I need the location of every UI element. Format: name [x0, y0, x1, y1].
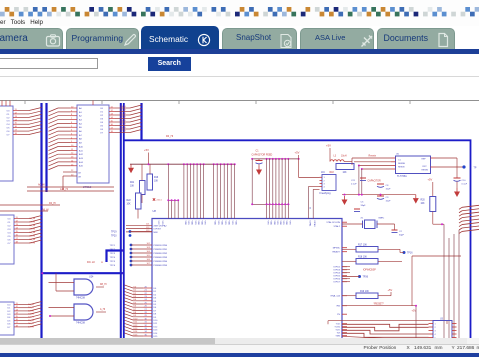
svg-text:R20: R20 [421, 200, 426, 202]
svg-text:10K: 10K [421, 203, 426, 205]
svg-text:D7_H: D7_H [121, 131, 127, 133]
svg-text:TPC5: TPC5 [110, 261, 116, 263]
svg-text:D3: D3 [154, 298, 158, 300]
svg-text:10K: 10K [130, 186, 135, 188]
svg-text:O0_HI: O0_HI [29, 218, 35, 220]
svg-text:A13: A13 [79, 157, 84, 160]
svg-text:O7_HI: O7_HI [29, 242, 35, 244]
svg-text:D5_HI: D5_HI [28, 320, 34, 322]
svg-text:A10: A10 [79, 145, 84, 148]
svg-text:VSS: VSS [267, 221, 269, 226]
svg-text:IOPD4: IOPD4 [333, 273, 340, 275]
svg-text:C10: C10 [462, 180, 467, 182]
svg-text:TP: TP [474, 168, 477, 170]
svg-text:+5V: +5V [388, 288, 393, 292]
svg-text:D2: D2 [8, 311, 12, 313]
svg-text:VCC: VCC [157, 221, 159, 226]
svg-text:D7: D7 [8, 327, 12, 329]
svg-text:U8: U8 [153, 209, 157, 213]
svg-text:RST: RST [423, 166, 428, 168]
svg-text:C21: C21 [351, 180, 356, 182]
svg-text:22C1: 22C1 [157, 199, 163, 201]
svg-text:2: 2 [324, 180, 326, 182]
svg-text:A9: A9 [79, 142, 82, 145]
svg-text:VSS: VSS [231, 221, 233, 226]
svg-text:SENSE: SENSE [398, 163, 406, 165]
svg-text:VDD: VDD [200, 221, 202, 226]
svg-text:R17 10K: R17 10K [358, 244, 367, 246]
svg-text:O6: O6 [8, 239, 12, 241]
svg-text:VSS: VSS [288, 221, 290, 226]
svg-text:O2: O2 [8, 225, 12, 227]
svg-text:O7: O7 [100, 132, 104, 134]
svg-text:ENA_144: ENA_144 [331, 295, 341, 298]
svg-text:+5V: +5V [326, 144, 331, 148]
svg-text:XTAL2: XTAL2 [333, 225, 340, 228]
svg-text:VDD: VDD [279, 221, 281, 226]
svg-text:IOPA1: IOPA1 [308, 221, 311, 228]
svg-text:+5V: +5V [295, 151, 300, 155]
svg-text:O0: O0 [100, 108, 104, 110]
svg-text:D3_HI: D3_HI [28, 314, 34, 316]
svg-text:/RS: /RS [336, 306, 340, 308]
svg-text:O6: O6 [7, 131, 11, 133]
svg-text:1: 1 [324, 177, 326, 179]
svg-text:A3: A3 [79, 118, 82, 121]
svg-text:A5: A5 [79, 126, 82, 129]
svg-text:1: 1 [435, 323, 437, 325]
svg-text:CE: CE [78, 173, 82, 175]
svg-text:D0_HI: D0_HI [49, 202, 56, 205]
svg-text:VDD: VDD [228, 221, 230, 226]
svg-text:MP/MC: MP/MC [333, 248, 341, 250]
svg-text:O3: O3 [100, 118, 104, 120]
svg-text:TPC6: TPC6 [110, 265, 116, 267]
svg-text:D14: D14 [154, 333, 159, 335]
svg-text:VSS: VSS [161, 221, 163, 226]
svg-text:D2: D2 [154, 294, 158, 296]
svg-text:A7: A7 [79, 134, 82, 137]
svg-text:A11: A11 [79, 149, 84, 152]
svg-text:D6: D6 [154, 307, 158, 309]
svg-text:VSS: VSS [224, 221, 226, 226]
svg-text:10K: 10K [127, 204, 132, 206]
svg-text:PWM1/IOPB0: PWM1/IOPB0 [154, 245, 168, 247]
svg-text:10uH: 10uH [341, 155, 347, 157]
svg-text:C5: C5 [361, 202, 365, 204]
svg-text:VDD: VDD [235, 221, 237, 226]
svg-text:D6: D6 [8, 324, 12, 326]
svg-text:U24: U24 [89, 276, 94, 279]
svg-text:O4: O4 [7, 124, 11, 126]
svg-text:O5: O5 [7, 128, 11, 130]
svg-text:XTAL1/CLKIN: XTAL1/CLKIN [326, 221, 340, 224]
svg-text:VSS: VSS [204, 221, 206, 226]
svg-text:O2_HI: O2_HI [29, 225, 35, 227]
svg-text:4: 4 [324, 187, 326, 189]
svg-text:D6_HI: D6_HI [28, 323, 34, 325]
svg-text:D3: D3 [8, 314, 12, 316]
svg-text:Resetn: Resetn [369, 155, 377, 158]
svg-text:VSS: VSS [217, 221, 219, 226]
svg-text:3: 3 [435, 330, 437, 332]
svg-text:TP36: TP36 [363, 277, 369, 279]
svg-text:A4: A4 [79, 122, 82, 125]
svg-text:D1_H: D1_H [121, 110, 127, 112]
svg-text:C1: C1 [398, 160, 402, 162]
svg-text:+5V: +5V [428, 178, 433, 182]
svg-text:IOPD6: IOPD6 [333, 279, 340, 281]
svg-text:*RESET*: *RESET* [374, 303, 384, 306]
svg-text:C9: C9 [386, 197, 390, 199]
svg-text:2: 2 [435, 327, 437, 329]
svg-text:R19 10K: R19 10K [360, 291, 369, 293]
svg-text:O5: O5 [8, 236, 12, 238]
svg-text:D6_H: D6_H [121, 127, 127, 129]
svg-text:»: » [101, 261, 103, 265]
svg-text:PWM6/IOPB5: PWM6/IOPB5 [154, 265, 168, 267]
svg-text:TP16: TP16 [407, 253, 413, 255]
svg-text:D0: D0 [8, 304, 12, 306]
svg-text:RESIN: RESIN [422, 170, 429, 172]
svg-text:TCK0: TCK0 [334, 327, 340, 329]
svg-text:O0: O0 [8, 218, 12, 220]
svg-text:TL7705A: TL7705A [397, 175, 407, 178]
svg-text:VDD: VDD [184, 221, 186, 226]
svg-text:33pF: 33pF [361, 205, 367, 207]
svg-text:U6: U6 [396, 154, 400, 156]
svg-text:D11: D11 [154, 323, 159, 325]
svg-text:TP19: TP19 [111, 231, 117, 233]
svg-text:VSS: VSS [194, 221, 196, 226]
svg-text:C2: C2 [399, 231, 403, 233]
svg-text:D3_H: D3_H [121, 117, 127, 119]
svg-text:30pF: 30pF [399, 235, 405, 237]
svg-text:D1: D1 [154, 291, 158, 293]
svg-text:A12: A12 [79, 153, 84, 156]
svg-text:VDD: VDD [273, 221, 275, 226]
svg-text:O7: O7 [7, 134, 11, 136]
svg-text:D5: D5 [154, 304, 158, 306]
svg-text:A0_HI: A0_HI [38, 184, 45, 187]
svg-text:A14: A14 [79, 161, 84, 164]
svg-text:L3: L3 [334, 155, 337, 157]
svg-text:PWM4/IOPB3: PWM4/IOPB3 [154, 257, 168, 259]
svg-text:IOPD5: IOPD5 [333, 276, 340, 278]
svg-text:O2: O2 [7, 117, 11, 119]
svg-text:10uF: 10uF [386, 201, 392, 203]
svg-text:D4: D4 [154, 301, 158, 303]
svg-text:A0: A0 [79, 107, 82, 110]
svg-text:A15: A15 [79, 165, 84, 168]
svg-text:IOPD7: IOPD7 [333, 282, 340, 284]
svg-text:D4_HI: D4_HI [28, 317, 34, 319]
svg-text:O1_HI: O1_HI [29, 221, 35, 223]
svg-text:A_HI: A_HI [100, 308, 105, 311]
svg-text:O0: O0 [7, 110, 11, 112]
svg-text:D13: D13 [154, 330, 159, 332]
svg-text:TP20: TP20 [111, 235, 117, 237]
svg-text:O7: O7 [8, 243, 12, 245]
svg-text:A8: A8 [79, 138, 82, 141]
svg-text:D1_HI: D1_HI [28, 307, 34, 309]
svg-text:10uF: 10uF [386, 189, 392, 191]
svg-text:8MHz: 8MHz [379, 217, 385, 219]
svg-text:D8: D8 [154, 314, 158, 316]
svg-text:A2: A2 [79, 115, 82, 118]
svg-text:VSS: VSS [282, 221, 284, 226]
svg-text:R18: R18 [330, 172, 335, 174]
svg-text:TPC2: TPC2 [110, 249, 116, 251]
svg-text:74HC08: 74HC08 [76, 297, 85, 300]
svg-text:O1: O1 [100, 111, 104, 113]
svg-text:4: 4 [435, 334, 437, 336]
svg-text:D0_HI: D0_HI [28, 304, 34, 306]
svg-text:D0_H: D0_H [121, 106, 127, 108]
svg-text:REF: REF [422, 159, 427, 161]
svg-text:R22: R22 [127, 200, 132, 202]
svg-text:10K: 10K [154, 181, 159, 183]
svg-text:D12: D12 [154, 326, 159, 328]
svg-text:IOPD3: IOPD3 [333, 270, 340, 272]
svg-text:IOPD2: IOPD2 [333, 267, 340, 269]
svg-text:O1: O1 [7, 114, 11, 116]
svg-text:O3: O3 [7, 121, 11, 123]
svg-text:O1: O1 [8, 222, 12, 224]
svg-text:D4: D4 [8, 317, 12, 319]
svg-text:O4: O4 [8, 232, 12, 234]
svg-text:0.1uF: 0.1uF [351, 184, 357, 186]
svg-text:IOPINT: IOPINT [154, 229, 162, 231]
svg-text:VSS: VSS [276, 221, 278, 226]
svg-text:D7: D7 [154, 310, 158, 312]
svg-text:D2_H: D2_H [121, 113, 127, 115]
svg-text:VDD: VDD [221, 221, 223, 226]
svg-text:READY: READY [332, 251, 340, 254]
svg-text:D8_HI: D8_HI [100, 284, 107, 286]
svg-text:D9: D9 [154, 317, 158, 319]
svg-text:D7_HI: D7_HI [28, 326, 34, 328]
svg-text:+5V: +5V [144, 148, 149, 152]
svg-text:NMI: NMI [154, 232, 158, 234]
svg-text:R16: R16 [154, 177, 159, 179]
svg-text:OE: OE [78, 177, 82, 179]
svg-text:XINT1/IOPA2: XINT1/IOPA2 [154, 224, 168, 227]
svg-text:VDD: VDD [285, 221, 287, 226]
svg-text:TPC1: TPC1 [110, 245, 116, 247]
svg-text:TPC3: TPC3 [110, 253, 116, 255]
svg-text:A6: A6 [79, 130, 82, 133]
svg-text:TDI: TDI [336, 333, 340, 335]
svg-text:Freeflying: Freeflying [320, 192, 332, 195]
svg-text:O4: O4 [100, 122, 104, 124]
svg-text:R21: R21 [130, 182, 135, 184]
svg-text:O5_HI: O5_HI [29, 235, 35, 237]
svg-text:R18 10K: R18 10K [358, 256, 367, 258]
svg-text:3: 3 [324, 183, 326, 185]
svg-text:C8: C8 [386, 185, 390, 187]
svg-text:O4_HI: O4_HI [29, 232, 35, 234]
svg-text:A15_HI: A15_HI [60, 188, 68, 191]
svg-text:A8_HI: A8_HI [42, 209, 49, 212]
svg-text:74HC08: 74HC08 [76, 322, 85, 325]
svg-text:J16: J16 [321, 172, 325, 174]
svg-text:IOPA0: IOPA0 [313, 221, 316, 228]
svg-text:CAPACITOR FEED: CAPACITOR FEED [252, 153, 273, 156]
svg-text:D4_H: D4_H [121, 120, 127, 122]
svg-text:PWM2/IOPB1: PWM2/IOPB1 [154, 249, 168, 251]
svg-text:PS: PS [337, 314, 340, 316]
svg-text:D2_HI: D2_HI [28, 310, 34, 312]
svg-text:D0_HI: D0_HI [166, 135, 173, 138]
svg-text:VDD: VDD [270, 221, 272, 226]
svg-text:C1: C1 [256, 150, 260, 153]
svg-text:D0: D0 [154, 288, 158, 290]
svg-text:0.1uF: 0.1uF [462, 184, 468, 186]
svg-text:PWM5/IOPB4: PWM5/IOPB4 [154, 261, 168, 263]
svg-text:O6: O6 [100, 129, 104, 131]
svg-text:CAPACITOR: CAPACITOR [368, 180, 382, 183]
svg-text:O2: O2 [100, 115, 104, 117]
svg-text:O5: O5 [100, 125, 104, 127]
svg-text:A1: A1 [79, 111, 82, 114]
svg-text:TCK: TCK [336, 324, 341, 326]
svg-text:O6_HI: O6_HI [29, 239, 35, 241]
svg-text:D5_H: D5_H [121, 124, 127, 126]
svg-text:D10: D10 [154, 320, 159, 322]
svg-text:TPC4: TPC4 [110, 257, 116, 259]
svg-text:X1: X1 [361, 217, 364, 219]
svg-text:VDD: VDD [191, 221, 193, 226]
svg-text:D5: D5 [8, 320, 12, 322]
svg-text:VSS: VSS [187, 221, 189, 226]
svg-text:VDD: VDD [197, 221, 199, 226]
svg-text:O3_HI: O3_HI [29, 228, 35, 230]
svg-text:D1: D1 [8, 308, 12, 310]
svg-text:PWM3/IOPB2: PWM3/IOPB2 [154, 253, 168, 255]
svg-text:IOP/MCBSP: IOP/MCBSP [363, 270, 376, 272]
svg-text:O3: O3 [8, 229, 12, 231]
svg-text:D0..HI: D0..HI [87, 260, 95, 264]
svg-text:10K: 10K [343, 172, 348, 174]
svg-text:VDD: VDD [214, 221, 216, 226]
svg-text:TDO: TDO [335, 330, 340, 332]
svg-text:RESIN: RESIN [398, 167, 405, 169]
